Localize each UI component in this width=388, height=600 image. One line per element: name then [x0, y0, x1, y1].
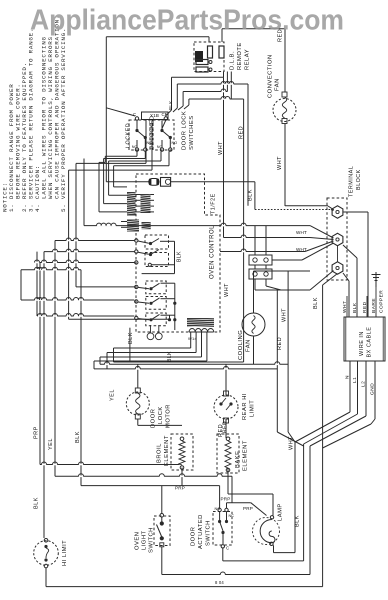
svg-text:NC: NC — [229, 514, 235, 518]
svg-text:PRP: PRP — [175, 486, 185, 491]
svg-text:BX CABLE: BX CABLE — [367, 327, 373, 358]
svg-text:C: C — [133, 112, 136, 117]
svg-text:AppliancePartsPros.com: AppliancePartsPros.com — [30, 5, 344, 37]
svg-text:5. VERIFY PROPER OPERATION AFT: 5. VERIFY PROPER OPERATION AFTER SERVICI… — [60, 28, 67, 212]
svg-text:DOOR: DOOR — [191, 527, 197, 546]
svg-text:BLK: BLK — [313, 297, 319, 309]
svg-text:OVEN: OVEN — [135, 532, 141, 550]
svg-text:NC: NC — [132, 145, 138, 149]
svg-text:WHT: WHT — [224, 283, 230, 297]
svg-text:WHT: WHT — [296, 247, 307, 252]
svg-text:BLK: BLK — [167, 351, 173, 362]
svg-text:BLK: BLK — [75, 431, 81, 443]
svg-text:WHT: WHT — [277, 156, 283, 170]
svg-text:BLK: BLK — [248, 189, 254, 201]
svg-text:BLK: BLK — [168, 100, 173, 110]
svg-text:REMOTE: REMOTE — [237, 42, 243, 70]
svg-text:T1/F2E: T1/F2E — [211, 193, 217, 214]
svg-text:SWITCH: SWITCH — [149, 527, 155, 553]
svg-text:LAMP: LAMP — [278, 503, 284, 521]
svg-text:BARE: BARE — [371, 298, 377, 313]
svg-text:FAN: FAN — [275, 78, 281, 91]
svg-text:WHT: WHT — [289, 436, 295, 450]
svg-text:BROIL: BROIL — [157, 443, 163, 463]
svg-text:HI LIMIT: HI LIMIT — [62, 540, 68, 566]
svg-text:NO: NO — [172, 141, 178, 145]
svg-text:PRP: PRP — [243, 506, 253, 511]
svg-text:PRP: PRP — [221, 497, 231, 502]
svg-text:BLK: BLK — [295, 515, 301, 527]
svg-text:NO: NO — [215, 507, 221, 511]
svg-text:NC: NC — [157, 145, 163, 149]
svg-text:OVEN CONTROL: OVEN CONTROL — [210, 225, 216, 279]
svg-text:YEL: YEL — [110, 389, 116, 401]
svg-text:LIMIT: LIMIT — [250, 400, 256, 417]
svg-text:DOOR LOCK: DOOR LOCK — [182, 111, 188, 150]
svg-text:L2: L2 — [361, 381, 367, 387]
svg-text:BLK: BLK — [177, 251, 183, 262]
svg-text:COPPER: COPPER — [379, 290, 385, 313]
svg-text:LIGHT: LIGHT — [142, 530, 148, 550]
svg-text:BAKE: BAKE — [235, 451, 241, 468]
svg-text:L1: L1 — [352, 377, 358, 383]
svg-text:LOCK: LOCK — [158, 406, 164, 424]
svg-text:LOCKED: LOCKED — [126, 123, 132, 148]
svg-text:8 04: 8 04 — [215, 580, 224, 585]
svg-text:GND: GND — [370, 383, 376, 395]
svg-text:FAN: FAN — [246, 339, 252, 352]
svg-text:WIRE IN: WIRE IN — [359, 331, 365, 356]
svg-text:TERMINAL: TERMINAL — [349, 166, 355, 197]
svg-text:PRP: PRP — [34, 426, 40, 439]
svg-text:RED: RED — [277, 337, 283, 350]
svg-text:RED: RED — [239, 126, 245, 139]
svg-text:C: C — [162, 112, 165, 117]
svg-text:ELEMENT: ELEMENT — [164, 435, 170, 466]
svg-text:WHT: WHT — [282, 308, 288, 322]
svg-text:BLOCK: BLOCK — [356, 169, 362, 190]
svg-text:C: C — [226, 546, 229, 551]
svg-text:WHT: WHT — [296, 230, 307, 235]
svg-text:BLK: BLK — [34, 497, 40, 509]
svg-text:ELEMENT: ELEMENT — [243, 440, 249, 471]
svg-text:RELAY: RELAY — [245, 49, 251, 70]
svg-text:WHT: WHT — [342, 301, 348, 313]
svg-text:BLK: BLK — [128, 332, 134, 344]
svg-text:REAR HI: REAR HI — [242, 393, 248, 420]
svg-text:SWITCHES: SWITCHES — [189, 115, 195, 150]
svg-text:NO: NO — [147, 141, 153, 145]
svg-text:D.L.B.: D.L.B. — [230, 51, 236, 70]
svg-text:SWITCH: SWITCH — [206, 520, 212, 546]
svg-text:MOTOR: MOTOR — [166, 404, 172, 428]
svg-text:N: N — [345, 375, 351, 379]
svg-text:CONVECTION: CONVECTION — [268, 54, 274, 98]
svg-text:RED: RED — [362, 301, 368, 313]
svg-text:COOLING: COOLING — [238, 330, 244, 360]
svg-text:ACTUATED: ACTUATED — [198, 514, 204, 549]
svg-text:BLK: BLK — [352, 302, 358, 313]
svg-text:YEL: YEL — [48, 438, 54, 450]
svg-text:WHT: WHT — [218, 141, 224, 155]
svg-text:RED: RED — [223, 421, 229, 433]
